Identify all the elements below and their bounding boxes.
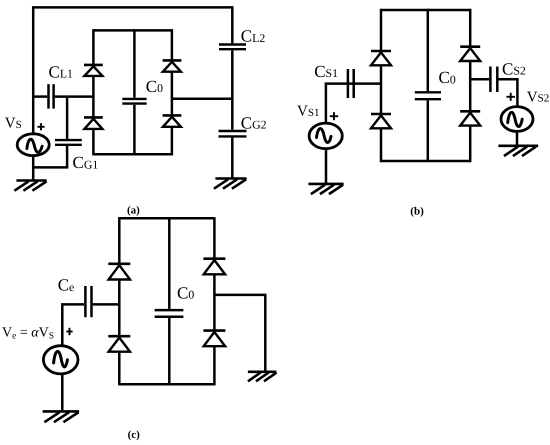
wire: bridge (a) left bottom segment xyxy=(92,129,95,156)
capacitor C0 (c) xyxy=(155,217,184,384)
wire: bridge (c) right bottom segment xyxy=(213,346,216,385)
svg-text:(b): (b) xyxy=(410,205,424,217)
wire: left midpoint (b) to CS1 xyxy=(347,82,381,85)
svg-text:C0: C0 xyxy=(439,68,456,87)
svg-text:Ce: Ce xyxy=(58,276,75,295)
svg-text:C0: C0 xyxy=(177,283,194,302)
wire: right midpoint (c) to output ground xyxy=(214,295,265,371)
voltage source VS xyxy=(17,134,49,156)
wire: CG1 bottom to source return xyxy=(33,166,68,169)
wire: bridge (a) bottom rail xyxy=(93,153,171,156)
wire: bridge (a) right middle segment xyxy=(171,72,174,115)
wire: right midpoint (b) to CS2 xyxy=(470,78,489,81)
wire: bridge (c) left top segment xyxy=(118,217,121,263)
label VS1 plus terminal xyxy=(330,112,338,120)
capacitor CG1 xyxy=(55,97,82,168)
svg-text:VS2: VS2 xyxy=(527,89,549,105)
wire: right rail bottom segment (a) xyxy=(231,138,234,178)
svg-text:CG1: CG1 xyxy=(73,153,99,172)
wire: bridge (b) bottom rail xyxy=(381,160,470,163)
wire: bridge (c) right middle segment xyxy=(213,274,216,329)
ground (a) right xyxy=(215,179,245,189)
svg-text:VS: VS xyxy=(5,116,22,132)
capacitor C0 (a) xyxy=(122,29,146,154)
wire: Ce to Ve xyxy=(62,304,84,345)
diode D11 upper-right (c) xyxy=(203,259,225,275)
diode D3 upper-right (a) xyxy=(163,60,182,71)
ground (b) right xyxy=(500,146,537,156)
wire: bridge (c) top rail xyxy=(119,217,214,220)
svg-text:VS1: VS1 xyxy=(297,104,319,120)
wire: bridge (b) right middle segment xyxy=(469,61,472,110)
voltage source VS1 xyxy=(309,123,342,149)
wire: bridge (a) left middle segment xyxy=(92,76,95,117)
wire: bridge (b) right top segment xyxy=(469,9,472,46)
diode D4 lower-right (a) xyxy=(163,115,182,126)
wire: right rail top segment (a) xyxy=(231,6,234,43)
diode D5 upper-left (b) xyxy=(371,51,391,65)
wire: bridge (b) left middle segment xyxy=(380,65,383,113)
wire: bridge (b) right bottom segment xyxy=(469,126,472,163)
wire: VS2 bottom to ground xyxy=(516,131,519,145)
diode D2 lower-left (a) xyxy=(84,117,103,128)
wire: left midpoint (c) to Ce xyxy=(93,303,120,306)
capacitor CS2 xyxy=(490,67,497,93)
wire: VS top node to CL1 xyxy=(33,95,47,98)
diode D1 upper-left (a) xyxy=(84,65,103,76)
svg-text:CS1: CS1 xyxy=(314,62,338,81)
diode D6 lower-left (b) xyxy=(371,114,391,128)
diode D9 upper-left (c) xyxy=(108,264,130,280)
wire: bridge (a) top rail xyxy=(93,29,171,32)
wire: bridge (b) left bottom segment xyxy=(380,128,383,162)
svg-text:(a): (a) xyxy=(127,205,140,217)
svg-text:CL2: CL2 xyxy=(241,27,266,46)
diode D7 upper-right (b) xyxy=(460,47,480,61)
wire: right rail middle segment (a) xyxy=(231,50,234,129)
wire: CL1 to bridge left midpoint node xyxy=(55,95,94,98)
wire: bridge (c) left bottom segment xyxy=(118,352,121,386)
label VS2 plus terminal xyxy=(506,93,515,101)
ground (c) left xyxy=(44,411,78,421)
capacitor CL1 xyxy=(49,84,54,108)
wire: bridge (c) right top segment xyxy=(213,217,216,258)
capacitor CG2 xyxy=(219,131,247,136)
wire: bridge (c) bottom rail xyxy=(119,383,214,386)
diode D12 lower-right (c) xyxy=(203,331,225,347)
capacitor CL2 xyxy=(219,45,246,50)
wire: bridge (b) top rail xyxy=(381,9,470,12)
svg-text:Ve = αVS: Ve = αVS xyxy=(2,326,54,342)
wire: bridge (a) right midpoint to output rail xyxy=(172,98,232,101)
svg-text:CL1: CL1 xyxy=(49,62,74,81)
voltage source VS2 xyxy=(501,107,533,132)
diode D10 lower-left (c) xyxy=(108,336,130,352)
wire: bridge (a) right bottom segment xyxy=(171,127,174,156)
ground (a) left xyxy=(16,181,46,191)
capacitor C0 (b) xyxy=(415,9,441,161)
capacitor Ce xyxy=(85,286,91,317)
wire: bridge (b) left top segment xyxy=(380,9,383,50)
wire: Ve bottom to ground xyxy=(61,374,64,411)
wire: CS2 to VS2 xyxy=(499,79,518,107)
wire: left rail from top to source VS xyxy=(32,6,35,134)
label VS plus terminal xyxy=(37,123,44,130)
wire: VS bottom to ground xyxy=(32,156,35,180)
voltage source Ve xyxy=(43,346,78,374)
wire: bridge (c) left middle segment xyxy=(118,280,121,336)
svg-text:C0: C0 xyxy=(146,77,163,96)
wire: VS1 bottom to ground xyxy=(325,149,328,183)
wire: top rail (a) xyxy=(33,6,232,9)
wire: CS1 to VS1 xyxy=(326,84,347,123)
wire: bridge (a) right top segment xyxy=(171,29,174,59)
capacitor CS1 xyxy=(348,69,354,98)
wire: bridge (a) left top segment xyxy=(92,29,95,64)
ground (b) left xyxy=(310,184,343,194)
svg-text:(c): (c) xyxy=(128,429,141,441)
svg-text:CG2: CG2 xyxy=(241,113,267,132)
svg-text:CS2: CS2 xyxy=(502,59,526,78)
ground (c) right xyxy=(249,372,276,381)
label Ve plus terminal xyxy=(66,328,72,335)
diode D8 lower-right (b) xyxy=(460,111,480,125)
